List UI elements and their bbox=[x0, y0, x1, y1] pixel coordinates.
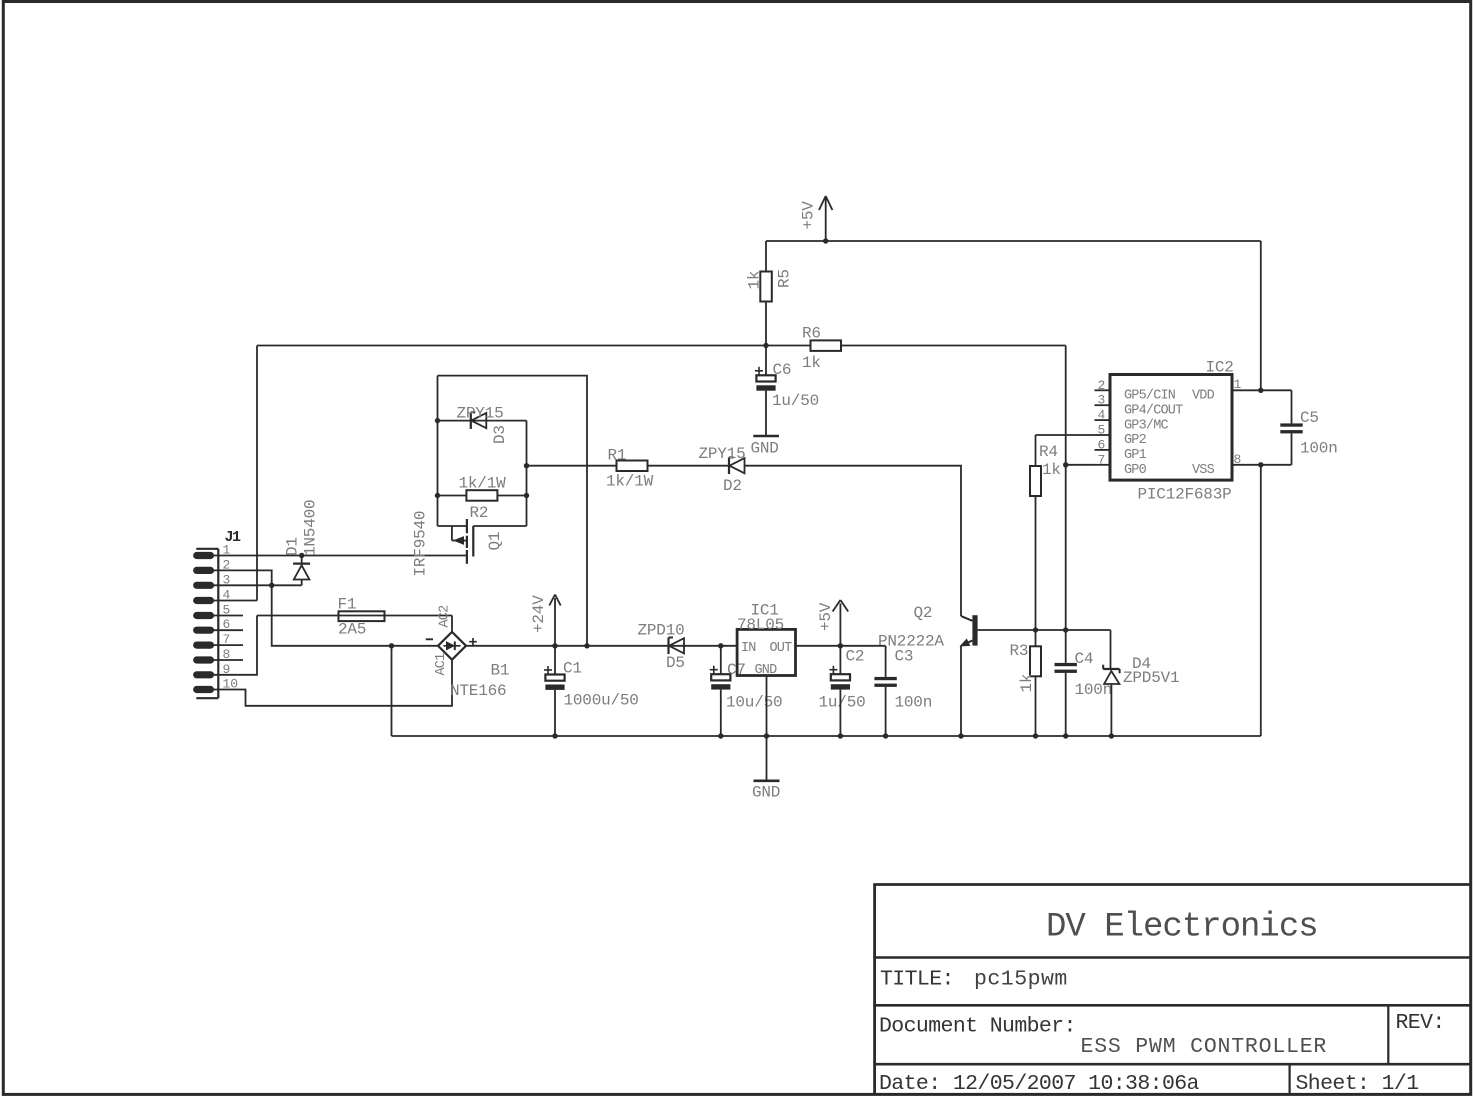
wire R1 to D2 bbox=[648, 465, 730, 467]
svg-text:TITLE:: TITLE: bbox=[880, 967, 954, 991]
svg-text:1k: 1k bbox=[802, 354, 821, 372]
wire D2 to Q2 collector bbox=[745, 466, 962, 616]
svg-text:ZPY15: ZPY15 bbox=[699, 445, 746, 463]
junction D1 anode / pin1 wire bbox=[299, 553, 304, 558]
svg-text:VSS: VSS bbox=[1192, 463, 1215, 478]
svg-text:Q1: Q1 bbox=[486, 532, 504, 551]
svg-text:ZPY15: ZPY15 bbox=[457, 405, 504, 423]
svg-text:1k/1W: 1k/1W bbox=[606, 473, 654, 491]
svg-text:1k: 1k bbox=[746, 271, 764, 290]
svg-text:100n: 100n bbox=[1300, 440, 1338, 458]
microcontroller IC2 PIC12F683P bbox=[1095, 359, 1292, 504]
svg-text:GP3/MC: GP3/MC bbox=[1124, 418, 1169, 433]
junction IC1 ground / bottom rail bbox=[764, 733, 769, 738]
capacitor C2 bbox=[819, 646, 866, 712]
wire IC1 ground pin bbox=[766, 676, 768, 781]
svg-text:78L05: 78L05 bbox=[737, 616, 784, 634]
title block date bbox=[879, 1072, 1200, 1096]
+5V supply symbol mid bbox=[817, 600, 848, 646]
+5V supply symbol top bbox=[800, 196, 833, 241]
svg-text:D3: D3 bbox=[491, 425, 509, 444]
ground symbol below C6 bbox=[751, 436, 780, 458]
transistor Q1 IRF9540 p-mosfet bbox=[412, 496, 527, 577]
capacitor C3 bbox=[874, 646, 932, 712]
wire gate column bbox=[526, 421, 528, 526]
junction D3 cathode node bbox=[435, 418, 440, 423]
svg-text:IRF9540: IRF9540 bbox=[412, 511, 430, 577]
svg-text:GND: GND bbox=[752, 784, 780, 802]
svg-text:Document Number:: Document Number: bbox=[879, 1014, 1076, 1038]
junction Q1 block / +24V rail bbox=[584, 643, 589, 648]
svg-text:1k: 1k bbox=[1018, 674, 1036, 693]
junction +5V arrow / top rail bbox=[823, 238, 828, 243]
svg-text:3: 3 bbox=[1098, 393, 1106, 408]
wire ground branch to bridge minus bbox=[272, 585, 438, 646]
svg-text:AC1: AC1 bbox=[434, 653, 449, 676]
svg-text:1: 1 bbox=[1234, 377, 1242, 392]
wire Q1 source column bbox=[437, 376, 439, 496]
wire C2 to bottom rail bbox=[839, 690, 841, 736]
wire +24V rail bbox=[466, 645, 737, 647]
junction R2 left node bbox=[435, 493, 440, 498]
svg-text:R2: R2 bbox=[470, 504, 489, 522]
resistor R4 1k bbox=[1030, 435, 1061, 496]
svg-text:C1: C1 bbox=[563, 660, 582, 678]
svg-text:+5V: +5V bbox=[800, 201, 818, 230]
junction C2 / bottom rail bbox=[838, 733, 843, 738]
connector J1 pin numbers bbox=[223, 543, 239, 692]
svg-text:Sheet: 1/1: Sheet: 1/1 bbox=[1296, 1072, 1419, 1096]
svg-text:1000u/50: 1000u/50 bbox=[564, 692, 639, 710]
wire J1 pin5 stub bbox=[204, 615, 243, 617]
capacitor C1 bbox=[544, 646, 639, 710]
junction C7 / bottom rail bbox=[718, 733, 723, 738]
wire R4 to base node bbox=[1035, 496, 1037, 630]
svg-text:AC2: AC2 bbox=[438, 605, 453, 628]
fuse F1 2A5 bbox=[257, 596, 452, 639]
svg-text:DV Electronics: DV Electronics bbox=[1046, 908, 1318, 946]
junction R3 top bbox=[1033, 627, 1038, 632]
zener diode D4 ZPD5V1 bbox=[1103, 655, 1179, 736]
svg-text:F1: F1 bbox=[338, 596, 357, 614]
svg-text:1u/50: 1u/50 bbox=[819, 694, 866, 712]
svg-text:R4: R4 bbox=[1039, 443, 1058, 461]
connector J1 pads bbox=[193, 552, 214, 693]
zener diode D5 ZPD10 bbox=[638, 622, 685, 673]
+24V supply symbol bbox=[530, 595, 561, 646]
svg-text:R6: R6 bbox=[802, 325, 821, 343]
svg-text:Date: 12/05/2007 10:38:06a: Date: 12/05/2007 10:38:06a bbox=[879, 1072, 1200, 1096]
wire C6 to ground bbox=[765, 391, 767, 436]
wire GP2 to R4 bbox=[1036, 434, 1095, 436]
wire ground drop to bottom rail bbox=[391, 646, 393, 736]
svg-text:+24V: +24V bbox=[530, 595, 548, 633]
junction C1 / bottom rail bbox=[552, 733, 557, 738]
wire J1 pin6 stub bbox=[204, 629, 243, 631]
svg-text:+5V: +5V bbox=[817, 602, 835, 631]
junction R3 / bottom rail bbox=[1033, 733, 1038, 738]
svg-text:R1: R1 bbox=[608, 447, 627, 465]
svg-text:D5: D5 bbox=[666, 654, 685, 672]
capacitor C4 bbox=[1055, 630, 1113, 699]
ground symbol below IC1 bbox=[752, 781, 780, 802]
wire C4 to bottom rail bbox=[1065, 673, 1067, 736]
svg-text:2A5: 2A5 bbox=[338, 621, 366, 639]
capacitor C7 bbox=[710, 646, 783, 712]
svg-text:GND: GND bbox=[751, 440, 779, 458]
wire VDD drop right bbox=[1260, 241, 1262, 390]
junction bridge minus / ground drop bbox=[389, 643, 394, 648]
svg-text:REV:: REV: bbox=[1396, 1011, 1445, 1035]
title block document name ESS PWM CONTROLLER bbox=[1081, 1035, 1328, 1059]
svg-text:4: 4 bbox=[1098, 408, 1106, 423]
wire C1 to bottom rail bbox=[554, 690, 556, 736]
svg-text:7: 7 bbox=[1098, 452, 1106, 467]
svg-text:C2: C2 bbox=[846, 648, 865, 666]
svg-text:10u/50: 10u/50 bbox=[726, 694, 782, 712]
svg-text:D1: D1 bbox=[284, 537, 302, 556]
svg-text:6: 6 bbox=[1098, 437, 1106, 452]
capacitor C5 bbox=[1280, 390, 1337, 465]
svg-text:C3: C3 bbox=[895, 648, 914, 666]
svg-text:GP5/CIN: GP5/CIN bbox=[1124, 389, 1176, 404]
svg-text:VDD: VDD bbox=[1192, 389, 1215, 404]
regulator IC1 78L05 bbox=[737, 602, 796, 679]
wire IC1 out bbox=[796, 645, 886, 647]
svg-text:5: 5 bbox=[1098, 423, 1106, 438]
wire base node to D4 bbox=[1110, 630, 1112, 669]
wire sense line down left side bbox=[256, 346, 258, 601]
junction C1 / +24V arrow bbox=[552, 643, 557, 648]
diode D1 1N5400 bbox=[284, 500, 320, 586]
svg-text:1N5400: 1N5400 bbox=[302, 500, 320, 556]
title block sheet bbox=[1296, 1072, 1419, 1096]
wire fuse to bridge AC2 bbox=[451, 616, 453, 632]
wire J1 pin7 stub bbox=[204, 644, 243, 646]
svg-text:ESS PWM CONTROLLER: ESS PWM CONTROLLER bbox=[1081, 1035, 1328, 1059]
svg-text:GP1: GP1 bbox=[1124, 448, 1147, 463]
svg-text:C4: C4 bbox=[1075, 650, 1094, 668]
wire VSS drop right bbox=[1260, 466, 1262, 737]
title block company name bbox=[1046, 908, 1318, 946]
junction VDD pin1 bbox=[1258, 388, 1263, 393]
resistor R2 1k/1W bbox=[438, 475, 527, 523]
wire GP0 junction to pin7 stub bbox=[1066, 464, 1095, 466]
svg-text:100n: 100n bbox=[895, 694, 933, 712]
junction pin3 / ground branch bbox=[269, 583, 274, 588]
svg-text:OUT: OUT bbox=[770, 641, 793, 656]
svg-text:ZPD5V1: ZPD5V1 bbox=[1123, 669, 1179, 687]
junction C3 / bottom rail bbox=[883, 733, 888, 738]
zener diode D3 ZPY15 bbox=[457, 405, 510, 445]
wire +5V rail to R5 bbox=[765, 241, 767, 272]
svg-text:R3: R3 bbox=[1010, 642, 1029, 660]
wire Q1 source to +24V rail bbox=[438, 376, 588, 646]
wire J1 pin9 to fuse bbox=[204, 616, 257, 675]
title block frame bbox=[873, 885, 1470, 1095]
junction C4 / bottom rail bbox=[1063, 733, 1068, 738]
wire J1 pin10 to bridge AC1 bbox=[204, 660, 452, 706]
wire +5V top rail bbox=[766, 240, 1261, 242]
title block Document Number label bbox=[879, 1014, 1076, 1038]
resistor R5 bbox=[746, 269, 794, 301]
svg-text:IC2: IC2 bbox=[1206, 359, 1234, 377]
svg-text:1k: 1k bbox=[1042, 461, 1061, 479]
junction R2 right node bbox=[524, 493, 529, 498]
wire D3 row bbox=[438, 420, 527, 422]
title block title value pc15pwm bbox=[974, 967, 1068, 991]
wire J1 pin3 bbox=[204, 584, 302, 586]
svg-text:pc15pwm: pc15pwm bbox=[974, 967, 1068, 991]
wire R5 to R6 node bbox=[765, 302, 767, 346]
svg-text:GP4/COUT: GP4/COUT bbox=[1124, 403, 1183, 418]
svg-text:GP0: GP0 bbox=[1124, 463, 1147, 478]
wire C3 to bottom rail bbox=[885, 687, 887, 736]
transistor Q2 PN2222A bbox=[878, 604, 1111, 736]
wire GP0 column down bbox=[1065, 465, 1067, 630]
svg-text:D2: D2 bbox=[723, 477, 742, 495]
wire R6 node to left vertical bbox=[257, 345, 766, 347]
connector J1 body bbox=[196, 529, 241, 698]
junction D4 / bottom rail bbox=[1109, 733, 1114, 738]
svg-text:PIC12F683P: PIC12F683P bbox=[1138, 486, 1232, 504]
bridge rectifier B1 NTE166 bbox=[426, 605, 510, 700]
title block TITLE label bbox=[880, 967, 954, 991]
junction VSS pin8 bbox=[1258, 462, 1263, 467]
resistor R6 bbox=[766, 325, 1066, 373]
wire J1 pin4 to sense line bbox=[204, 600, 257, 602]
svg-text:8: 8 bbox=[1234, 452, 1242, 467]
svg-text:C5: C5 bbox=[1300, 409, 1319, 427]
svg-text:1k/1W: 1k/1W bbox=[459, 475, 507, 493]
svg-text:B1: B1 bbox=[491, 662, 510, 680]
junction base node / GP0 column bbox=[1063, 627, 1068, 632]
wire J1 pin1 to Q1 drain bbox=[204, 555, 467, 557]
svg-text:2: 2 bbox=[1098, 378, 1106, 393]
wire R6 to GP0 column bbox=[1065, 346, 1067, 465]
title block REV label bbox=[1396, 1011, 1445, 1035]
resistor R3 1k bbox=[1010, 630, 1042, 693]
svg-text:NTE166: NTE166 bbox=[450, 682, 506, 700]
svg-text:Q2: Q2 bbox=[914, 604, 933, 622]
wire J1 pin2 bbox=[204, 570, 272, 585]
svg-text:C6: C6 bbox=[773, 361, 792, 379]
svg-text:IN: IN bbox=[741, 641, 756, 656]
junction R5/R6/C6 node bbox=[763, 343, 768, 348]
svg-text:R5: R5 bbox=[776, 269, 794, 288]
wire bottom ground rail bbox=[392, 735, 1261, 737]
svg-text:1u/50: 1u/50 bbox=[772, 392, 819, 410]
zener diode D2 ZPY15 bbox=[699, 445, 746, 495]
capacitor C6 bbox=[755, 346, 819, 411]
junction Q2 emitter / bottom rail bbox=[958, 733, 963, 738]
svg-text:ZPD10: ZPD10 bbox=[638, 622, 685, 640]
wire J1 pin8 stub bbox=[204, 659, 243, 661]
junction GP0 pin wire bbox=[1063, 462, 1068, 467]
resistor R1 1k/1W bbox=[527, 447, 654, 491]
wire C7 to bottom rail bbox=[720, 690, 722, 736]
svg-text:GP2: GP2 bbox=[1124, 433, 1147, 448]
junction +5V / C2 node bbox=[838, 643, 843, 648]
junction C7 / +24V rail bbox=[718, 643, 723, 648]
junction R1 pickoff bbox=[524, 463, 529, 468]
wire R3 to bottom rail bbox=[1035, 676, 1037, 736]
